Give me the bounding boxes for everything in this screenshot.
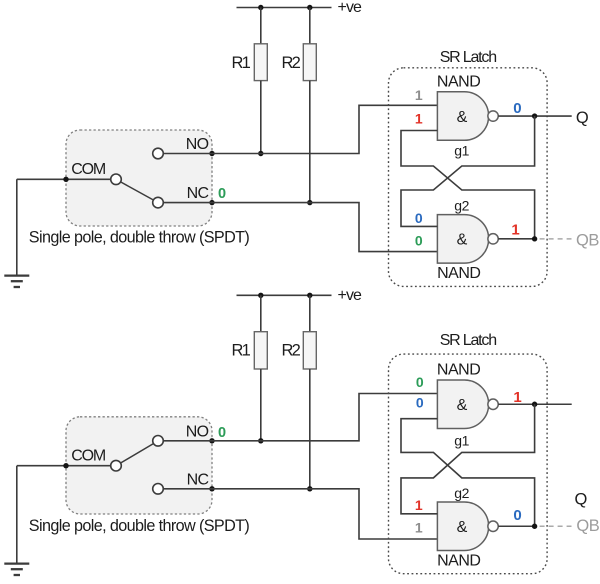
junction NO box edge (circuit 2) <box>209 438 214 443</box>
pin value 0 NC net (green) <box>218 186 226 202</box>
svg-text:g1: g1 <box>454 433 469 449</box>
svg-text:NC: NC <box>187 471 209 488</box>
svg-text:1: 1 <box>511 222 519 239</box>
junction rail/R1 (circuit 1) <box>258 5 263 10</box>
svg-text:NO: NO <box>186 423 209 440</box>
svg-text:SR Latch: SR Latch <box>440 332 497 349</box>
SR latch enclosure (circuit 2) <box>389 354 548 574</box>
switch lever COM-NC (circuit 1) <box>121 182 154 200</box>
switch SPDT body (circuit 2) <box>66 417 212 514</box>
label g1 (circuit 1) <box>454 143 469 159</box>
junction Q (circuit 1) <box>532 113 537 118</box>
svg-text:0: 0 <box>218 186 226 202</box>
junction COM box edge (circuit 2) <box>63 463 68 468</box>
pin value 0 NO net (green) <box>218 425 226 441</box>
pin value 0 g2 output (blue) <box>513 507 521 524</box>
resistor R2 (circuit 2) <box>303 295 316 489</box>
svg-text:1: 1 <box>513 389 521 406</box>
junction Q (circuit 2) <box>532 402 537 407</box>
svg-text:COM: COM <box>71 161 106 178</box>
junction COM box edge (circuit 1) <box>63 177 68 182</box>
label switch caption (circuit 2) <box>29 517 250 535</box>
terminal COM pole (circuit 2) <box>111 460 122 471</box>
terminal NC contact (circuit 2) <box>153 484 164 495</box>
svg-text:R2: R2 <box>282 54 301 72</box>
pin value 1 g1 output (red) <box>513 389 521 406</box>
svg-text:1: 1 <box>415 520 423 536</box>
pin value 0 g1 input1 (green) <box>416 374 424 390</box>
svg-text:+ve: +ve <box>338 287 363 304</box>
label NC (circuit 1) <box>187 185 209 202</box>
svg-text:0: 0 <box>416 374 424 390</box>
svg-text:NAND: NAND <box>437 362 480 379</box>
svg-text:R1: R1 <box>232 54 251 72</box>
svg-text:NAND: NAND <box>437 265 480 282</box>
svg-text:NC: NC <box>187 185 209 202</box>
pin value 1 g1 input1 (gray) <box>415 87 423 103</box>
label COM (circuit 1) <box>71 161 106 178</box>
terminal COM pole (circuit 1) <box>111 174 122 185</box>
svg-text:1: 1 <box>415 87 423 103</box>
svg-text:+ve: +ve <box>338 0 363 16</box>
pin value 0 g1 output (blue) <box>513 100 521 117</box>
wire NC net to g2 input (circuit 2) <box>163 489 437 539</box>
label NAND top (circuit 2) <box>437 362 480 379</box>
label g2 (circuit 1) <box>454 198 469 214</box>
label NC (circuit 2) <box>187 471 209 488</box>
wire QB dashed stub (circuit 2) <box>540 525 572 527</box>
svg-text:&: & <box>457 397 468 414</box>
label Q (circuit 2) <box>574 491 587 509</box>
label R2 (circuit 1) <box>282 54 301 72</box>
junction NC box edge (circuit 1) <box>209 200 214 205</box>
wire QB dashed stub (circuit 1) <box>540 238 572 240</box>
svg-text:g1: g1 <box>454 143 469 159</box>
switch lever COM-NO (circuit 2) <box>121 444 154 463</box>
svg-text:0: 0 <box>513 100 521 117</box>
label QB (circuit 1) <box>576 231 599 249</box>
svg-text:0: 0 <box>416 394 424 410</box>
wire +ve supply rail (circuit 1) <box>237 7 332 9</box>
svg-text:g2: g2 <box>454 485 469 501</box>
label switch caption (circuit 1) <box>29 229 250 247</box>
svg-text:SR Latch: SR Latch <box>440 49 497 66</box>
switch SPDT body (circuit 1) <box>66 130 212 226</box>
resistor R1 (circuit 2) <box>254 295 267 441</box>
svg-text:1: 1 <box>415 497 423 513</box>
resistor R1 (circuit 1) <box>254 8 267 154</box>
svg-text:0: 0 <box>218 425 226 441</box>
wire NO net to g1 input (circuit 2) <box>163 394 437 441</box>
ground (circuit 2) <box>4 466 29 575</box>
label NAND bottom (circuit 2) <box>437 552 480 569</box>
wire g2 output to QB node (circuit 1) <box>498 238 534 240</box>
svg-text:Single pole, double throw (SPD: Single pole, double throw (SPDT) <box>29 517 250 535</box>
junction NO box edge (circuit 1) <box>209 151 214 156</box>
label COM (circuit 2) <box>71 448 106 465</box>
label NAND top (circuit 1) <box>437 73 480 90</box>
svg-text:R2: R2 <box>282 342 301 360</box>
label SR Latch (circuit 1) <box>440 49 497 66</box>
pin value 0 g2 input1 (blue) <box>415 210 423 226</box>
label QB (circuit 2) <box>576 517 599 535</box>
svg-text:&: & <box>457 109 468 126</box>
label NO (circuit 1) <box>186 136 209 153</box>
svg-text:COM: COM <box>71 448 106 465</box>
nand gate g2 (circuit 2) <box>437 502 498 551</box>
svg-text:QB: QB <box>576 231 599 249</box>
pin value 1 g1 input2 (red) <box>415 111 423 127</box>
nand gate g1 (circuit 2) <box>437 380 498 429</box>
wire COM (circuit 2) <box>17 465 111 467</box>
label NAND bottom (circuit 1) <box>437 265 480 282</box>
svg-text:&: & <box>457 519 468 536</box>
nand gate g2 (circuit 1) <box>437 215 498 264</box>
svg-text:0: 0 <box>415 210 423 226</box>
label Q (circuit 1) <box>576 109 589 127</box>
junction QB (circuit 2) <box>532 524 537 529</box>
wire g1 output to Q node (circuit 2) <box>498 403 571 405</box>
svg-text:NO: NO <box>186 136 209 153</box>
junction R1/NO net (circuit 2) <box>258 438 263 443</box>
wire g2 output to QB node (circuit 2) <box>498 525 534 527</box>
svg-text:NAND: NAND <box>437 73 480 90</box>
label SR Latch (circuit 2) <box>440 332 497 349</box>
wire NO net to g1 input (circuit 1) <box>163 105 437 153</box>
svg-text:0: 0 <box>513 507 521 524</box>
svg-text:R1: R1 <box>232 342 251 360</box>
wire g1 second input from QB feedback (circuit 2) <box>401 419 535 527</box>
label g1 (circuit 2) <box>454 433 469 449</box>
junction rail/R2 (circuit 1) <box>307 5 312 10</box>
junction rail/R2 (circuit 2) <box>307 293 312 298</box>
wire COM (circuit 1) <box>17 178 111 180</box>
terminal NC contact (circuit 1) <box>153 197 164 208</box>
wire Q feedback to g2 input (circuit 1) <box>401 116 535 226</box>
svg-text:0: 0 <box>415 233 423 249</box>
wire g1 second input from QB feedback (circuit 1) <box>401 131 535 239</box>
terminal NO contact (circuit 1) <box>153 148 164 159</box>
label R1 (circuit 1) <box>232 54 251 72</box>
pin value 0 g2 input2 (green) <box>415 233 423 249</box>
label NO (circuit 2) <box>186 423 209 440</box>
terminal NO contact (circuit 2) <box>153 436 164 447</box>
wire g1 output to Q node (circuit 1) <box>498 115 571 117</box>
svg-text:NAND: NAND <box>437 552 480 569</box>
label +ve (circuit 2) <box>338 287 363 304</box>
junction rail/R1 (circuit 2) <box>258 293 263 298</box>
wire Q feedback to g2 input (circuit 2) <box>401 404 535 514</box>
svg-text:Q: Q <box>574 491 587 509</box>
pin value 1 g2 output (red) <box>511 222 519 239</box>
pin value 0 g1 input2 (blue) <box>416 394 424 410</box>
svg-text:1: 1 <box>415 111 423 127</box>
junction R2/NC net (circuit 2) <box>307 486 312 491</box>
SR latch enclosure (circuit 1) <box>389 68 548 287</box>
label +ve (circuit 1) <box>338 0 363 16</box>
junction R1/NO net (circuit 1) <box>258 151 263 156</box>
svg-text:g2: g2 <box>454 198 469 214</box>
junction R2/NC net (circuit 1) <box>307 200 312 205</box>
wire NC net to g2 input (circuit 1) <box>163 203 437 252</box>
resistor R2 (circuit 1) <box>303 8 316 203</box>
ground (circuit 1) <box>4 179 29 287</box>
svg-text:Q: Q <box>576 109 589 127</box>
wire +ve supply rail (circuit 2) <box>237 294 332 296</box>
nand gate g1 (circuit 1) <box>437 92 498 141</box>
junction NC box edge (circuit 2) <box>209 486 214 491</box>
label R2 (circuit 2) <box>282 342 301 360</box>
svg-text:Single pole, double throw (SPD: Single pole, double throw (SPDT) <box>29 229 250 247</box>
pin value 1 g2 input2 (gray) <box>415 520 423 536</box>
label g2 (circuit 2) <box>454 485 469 501</box>
svg-text:QB: QB <box>576 517 599 535</box>
label R1 (circuit 2) <box>232 342 251 360</box>
svg-text:&: & <box>457 232 468 249</box>
pin value 1 g2 input1 (red) <box>415 497 423 513</box>
junction QB (circuit 1) <box>532 236 537 241</box>
